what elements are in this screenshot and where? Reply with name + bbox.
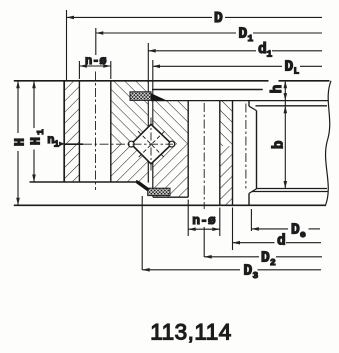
svg-text:1: 1	[248, 33, 254, 44]
svg-text:D: D	[214, 11, 223, 27]
svg-text:3: 3	[253, 270, 259, 281]
svg-text:H: H	[13, 138, 28, 146]
svg-text:D: D	[291, 223, 300, 239]
svg-text:n-ø: n-ø	[85, 54, 107, 68]
svg-text:d: d	[277, 234, 286, 250]
svg-text:e: e	[300, 229, 306, 240]
svg-text:D: D	[239, 27, 248, 43]
svg-text:2: 2	[270, 257, 276, 268]
svg-text:1: 1	[54, 140, 60, 150]
svg-text:D: D	[261, 251, 270, 267]
svg-text:H: H	[29, 137, 44, 145]
svg-text:D: D	[285, 60, 294, 76]
svg-text:113,114: 113,114	[150, 320, 232, 345]
svg-text:1: 1	[35, 129, 46, 135]
svg-text:b: b	[272, 140, 288, 149]
svg-text:h: h	[270, 85, 286, 94]
svg-text:n-ø: n-ø	[192, 213, 216, 228]
svg-text:d: d	[258, 42, 267, 58]
svg-text:1: 1	[267, 49, 273, 60]
svg-text:L: L	[294, 66, 300, 77]
svg-text:D: D	[244, 264, 253, 280]
